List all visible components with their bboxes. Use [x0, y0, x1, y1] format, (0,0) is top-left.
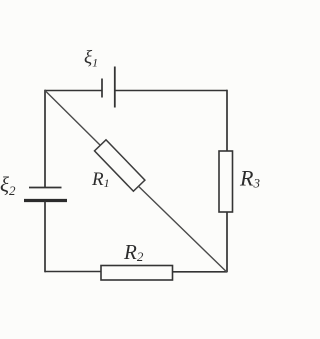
battery xi1 long plate — [114, 67, 116, 108]
wire top-right segment — [115, 90, 227, 92]
wire top-left segment — [45, 90, 102, 92]
wire right lower segment — [226, 212, 228, 272]
resistor R1 body (rotated) — [94, 140, 144, 191]
battery xi2 long plate — [24, 199, 67, 202]
wire diagonal lower segment — [139, 186, 227, 272]
battery xi1 short plate — [101, 79, 103, 98]
resistor R2 body — [101, 266, 173, 281]
battery xi2 short plate — [29, 187, 62, 189]
wire bottom-left segment — [45, 271, 102, 273]
resistor R3 body — [219, 151, 233, 212]
wire left lower segment — [44, 201, 46, 273]
wire right upper segment — [226, 90, 228, 152]
wire bottom-right segment — [173, 271, 228, 273]
wire left upper segment — [44, 90, 46, 188]
wire diagonal upper segment — [45, 91, 101, 147]
